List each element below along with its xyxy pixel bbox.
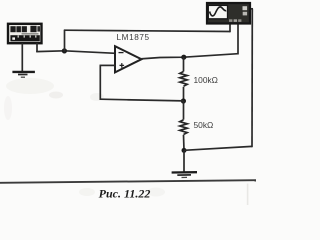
wire feedback vertical [99,65,101,100]
wire R2 to node D [183,135,186,151]
wire R1 to node C [183,87,185,101]
wire node D to ground [183,150,185,172]
node C junction (feedback tap) [181,98,186,103]
node D junction [182,148,187,153]
resistor R1 [180,72,187,87]
wire node A up [64,30,66,51]
wire right vertical up to scope ground [251,9,253,147]
svg-text:LM1875: LM1875 [117,33,150,42]
wire feedback horizontal [100,99,183,101]
wire up into scope right bottom terminal [237,23,239,55]
function generator XFG1 [8,24,42,43]
wire up into scope left terminal [229,23,231,32]
op-amp U1 [115,46,142,72]
svg-text:Рис. 11.22: Рис. 11.22 [99,187,151,201]
paper background [0,0,256,205]
wire feedback into non-inverting input [100,64,116,66]
resistor R2 [180,120,187,135]
ground (generator) [12,72,35,77]
wire gen left terminal to ground [21,43,23,72]
wire into scope right side terminal [249,8,253,10]
wire output node down to R1 [183,57,185,71]
oscilloscope XSC1 [207,3,250,24]
wire node D to scope ground run [184,146,252,150]
page rule [0,180,256,183]
wire gen right terminal down [36,43,38,52]
svg-text:50kΩ: 50kΩ [194,120,214,130]
svg-text:100kΩ: 100kΩ [194,75,218,85]
wire top run to oscilloscope channel A [64,30,230,31]
node B junction on output [181,55,186,60]
wire op-amp output run [141,54,239,59]
ground (bottom) [172,172,197,177]
wire node C down to R2 [183,101,185,120]
wire gen output to op-amp inverting input [36,51,115,54]
node A junction [62,48,67,53]
